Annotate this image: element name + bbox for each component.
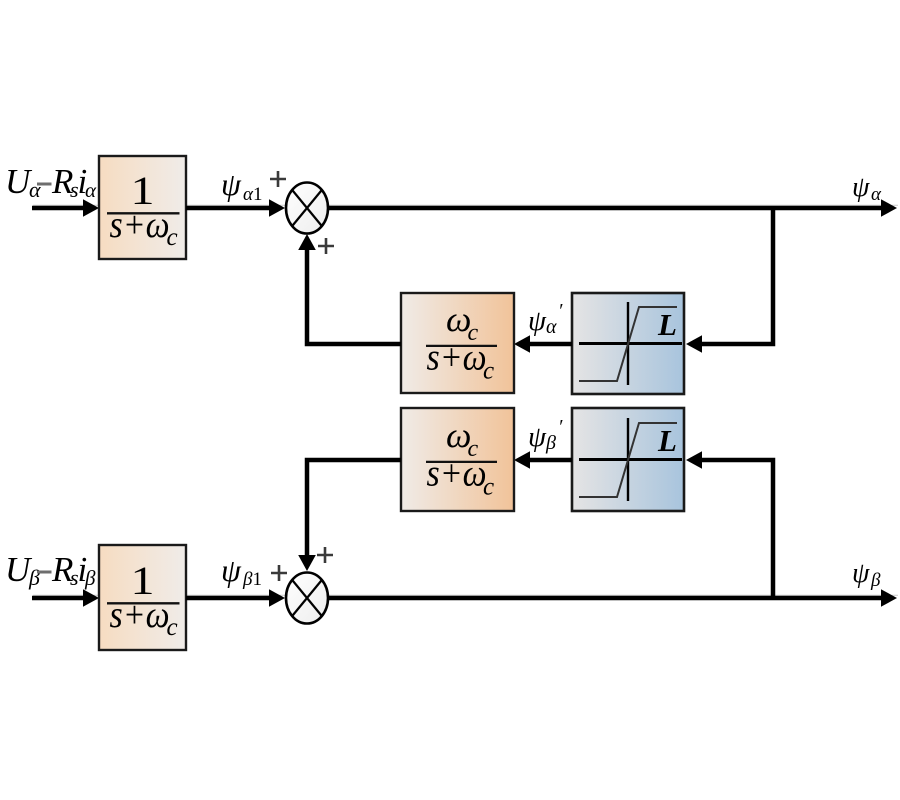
- svg-text:α: α: [29, 177, 41, 202]
- svg-text:s+ω: s+ω: [427, 453, 487, 495]
- svg-text:β: β: [84, 566, 96, 590]
- svg-text:c: c: [483, 474, 494, 501]
- svg-text:c: c: [167, 224, 178, 251]
- svg-text:ψ: ψ: [852, 558, 870, 589]
- svg-text:ψ: ψ: [528, 421, 547, 453]
- svg-text:s+ω: s+ω: [110, 594, 170, 636]
- svg-text:′: ′: [558, 416, 563, 438]
- svg-text:α: α: [871, 184, 882, 205]
- svg-text:ψ: ψ: [221, 552, 242, 588]
- svg-text:α: α: [85, 178, 97, 202]
- svg-text:α1: α1: [243, 184, 262, 205]
- svg-text:ψ: ψ: [528, 305, 547, 337]
- svg-text:α: α: [546, 316, 557, 338]
- svg-text:L: L: [657, 307, 677, 342]
- svg-text:β: β: [545, 432, 556, 454]
- svg-text:c: c: [167, 614, 178, 641]
- svg-text:β: β: [28, 565, 40, 590]
- svg-text:s+ω: s+ω: [427, 337, 487, 379]
- svg-text:L: L: [657, 423, 677, 458]
- svg-text:β: β: [870, 570, 881, 591]
- svg-text:ψ: ψ: [852, 172, 870, 203]
- svg-text:′: ′: [558, 300, 563, 322]
- svg-text:c: c: [483, 358, 494, 385]
- svg-text:β1: β1: [242, 569, 262, 590]
- svg-text:s+ω: s+ω: [110, 204, 170, 246]
- svg-text:ψ: ψ: [221, 166, 242, 202]
